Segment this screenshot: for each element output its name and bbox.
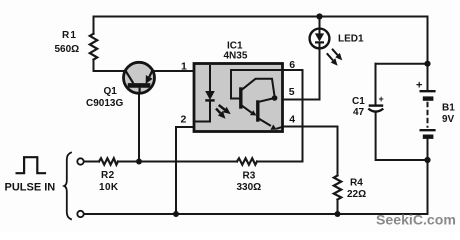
- svg-text:330Ω: 330Ω: [237, 182, 262, 193]
- svg-text:R2: R2: [101, 170, 115, 181]
- svg-text:5: 5: [289, 86, 295, 98]
- svg-text:47: 47: [353, 107, 365, 118]
- svg-text:LED1: LED1: [338, 34, 364, 45]
- svg-text:22Ω: 22Ω: [347, 189, 366, 200]
- svg-text:R1: R1: [62, 30, 77, 41]
- svg-text:+: +: [416, 80, 422, 92]
- svg-text:9V: 9V: [442, 114, 455, 125]
- svg-text:10K: 10K: [99, 182, 119, 193]
- svg-text:6: 6: [289, 59, 295, 71]
- svg-text:C1: C1: [352, 96, 365, 107]
- svg-text:C9013G: C9013G: [86, 98, 123, 109]
- svg-text:+: +: [379, 94, 384, 104]
- svg-text:4N35: 4N35: [224, 51, 248, 62]
- svg-text:SeekiC.com: SeekiC.com: [376, 212, 456, 228]
- svg-text:PULSE IN: PULSE IN: [5, 181, 56, 193]
- svg-text:Q1: Q1: [104, 86, 118, 97]
- svg-text:4: 4: [289, 114, 295, 126]
- svg-text:2: 2: [181, 114, 187, 126]
- svg-text:B1: B1: [442, 103, 455, 114]
- svg-text:R3: R3: [243, 171, 256, 182]
- svg-text:R4: R4: [350, 178, 363, 189]
- svg-text:560Ω: 560Ω: [55, 44, 80, 55]
- svg-text:1: 1: [181, 61, 187, 73]
